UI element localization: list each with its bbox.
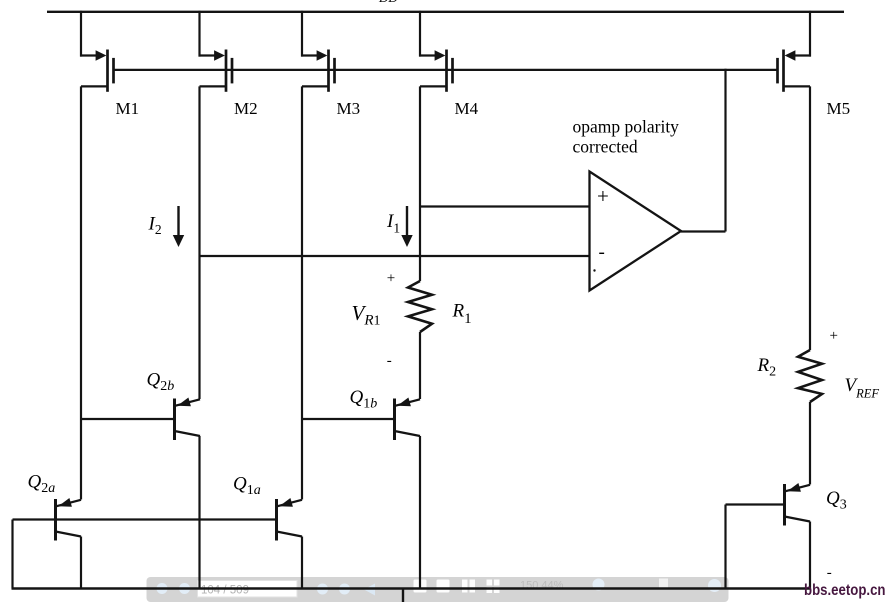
- svg-text:+: +: [597, 184, 609, 208]
- svg-text:M1: M1: [116, 99, 140, 118]
- svg-text:Q2a: Q2a: [28, 472, 56, 497]
- wire M3 drain to Q1a emitter: [301, 86, 303, 499]
- svg-text:R2: R2: [757, 355, 777, 380]
- svg-text:bbs.eetop.cn: bbs.eetop.cn: [804, 582, 886, 599]
- wire op-amp plus input: [420, 205, 590, 207]
- transistor M3: [301, 11, 335, 92]
- svg-text:DD: DD: [378, 0, 398, 5]
- resistor R1: [408, 281, 432, 332]
- wire R2 to Q3 emitter: [809, 402, 811, 485]
- svg-text:R1: R1: [452, 301, 472, 328]
- wire Q3 base: [726, 503, 785, 505]
- svg-text:I1: I1: [386, 211, 400, 236]
- transistor Q1a: [277, 498, 303, 541]
- gate bus wire: [113, 69, 777, 71]
- op-amp U1: [590, 172, 682, 291]
- wire Q1a collector to ground rail: [301, 537, 303, 589]
- transistor Q1b: [395, 398, 421, 441]
- pdf viewer toolbar: [147, 577, 729, 602]
- wire Q2a collector to ground rail: [80, 537, 82, 589]
- wire Q1b collector to ground rail: [419, 436, 421, 589]
- svg-text:M2: M2: [234, 99, 258, 118]
- wire op-amp minus input: [200, 255, 590, 257]
- svg-text:Q2b: Q2b: [147, 370, 175, 395]
- transistor M2: [199, 11, 233, 92]
- wire Q3 collector to ground rail: [809, 522, 811, 589]
- wire Q2b collector to ground rail: [198, 436, 200, 589]
- transistor M5: [778, 11, 812, 92]
- svg-text:-: -: [599, 242, 605, 263]
- wire M5 drain to R2: [809, 86, 811, 350]
- svg-text:I2: I2: [148, 214, 162, 238]
- wire feedback to gate bus: [724, 69, 726, 232]
- svg-text:Q1b: Q1b: [350, 387, 378, 412]
- transistor M1: [80, 11, 114, 92]
- wire Q3 base drop to ground rail: [724, 505, 726, 589]
- resistor R2: [798, 350, 822, 402]
- svg-text:104 / 509: 104 / 509: [201, 585, 249, 597]
- transistor Q3: [785, 483, 811, 526]
- svg-text:VR1: VR1: [352, 301, 381, 329]
- wire base rail Q2a Q1a: [13, 518, 277, 520]
- svg-text:Q1a: Q1a: [233, 474, 261, 499]
- svg-text:-: -: [387, 353, 392, 369]
- transistor M4: [419, 11, 453, 92]
- svg-text:corrected: corrected: [573, 137, 638, 157]
- svg-text:-: -: [827, 565, 832, 581]
- transistor Q2b: [175, 398, 201, 441]
- svg-text:+: +: [830, 328, 838, 344]
- wire M4 drain to R1: [419, 86, 421, 281]
- svg-text:M3: M3: [337, 99, 361, 118]
- current arrow I2: [173, 206, 184, 247]
- transistor Q2a: [56, 498, 82, 541]
- wire R1 to Q1b emitter: [419, 332, 421, 399]
- current arrow I1: [401, 206, 412, 247]
- wire Q1b base: [302, 418, 395, 420]
- wire ground drop: [402, 589, 404, 602]
- svg-text:opamp polarity: opamp polarity: [573, 117, 680, 137]
- wire op-amp output: [681, 230, 726, 232]
- svg-text:M5: M5: [827, 99, 851, 118]
- svg-text:VREF: VREF: [845, 375, 880, 401]
- wire left drop to ground rail: [11, 520, 13, 589]
- wire M1 drain to Q2a emitter: [80, 86, 82, 499]
- svg-text:+: +: [387, 271, 395, 287]
- VDD rail: [47, 11, 844, 13]
- wire Q2b base: [81, 418, 175, 420]
- svg-text:Q3: Q3: [826, 488, 847, 513]
- svg-text:M4: M4: [455, 99, 479, 118]
- ground rail: [12, 587, 811, 589]
- wire M2 drain to Q2b emitter: [198, 86, 200, 399]
